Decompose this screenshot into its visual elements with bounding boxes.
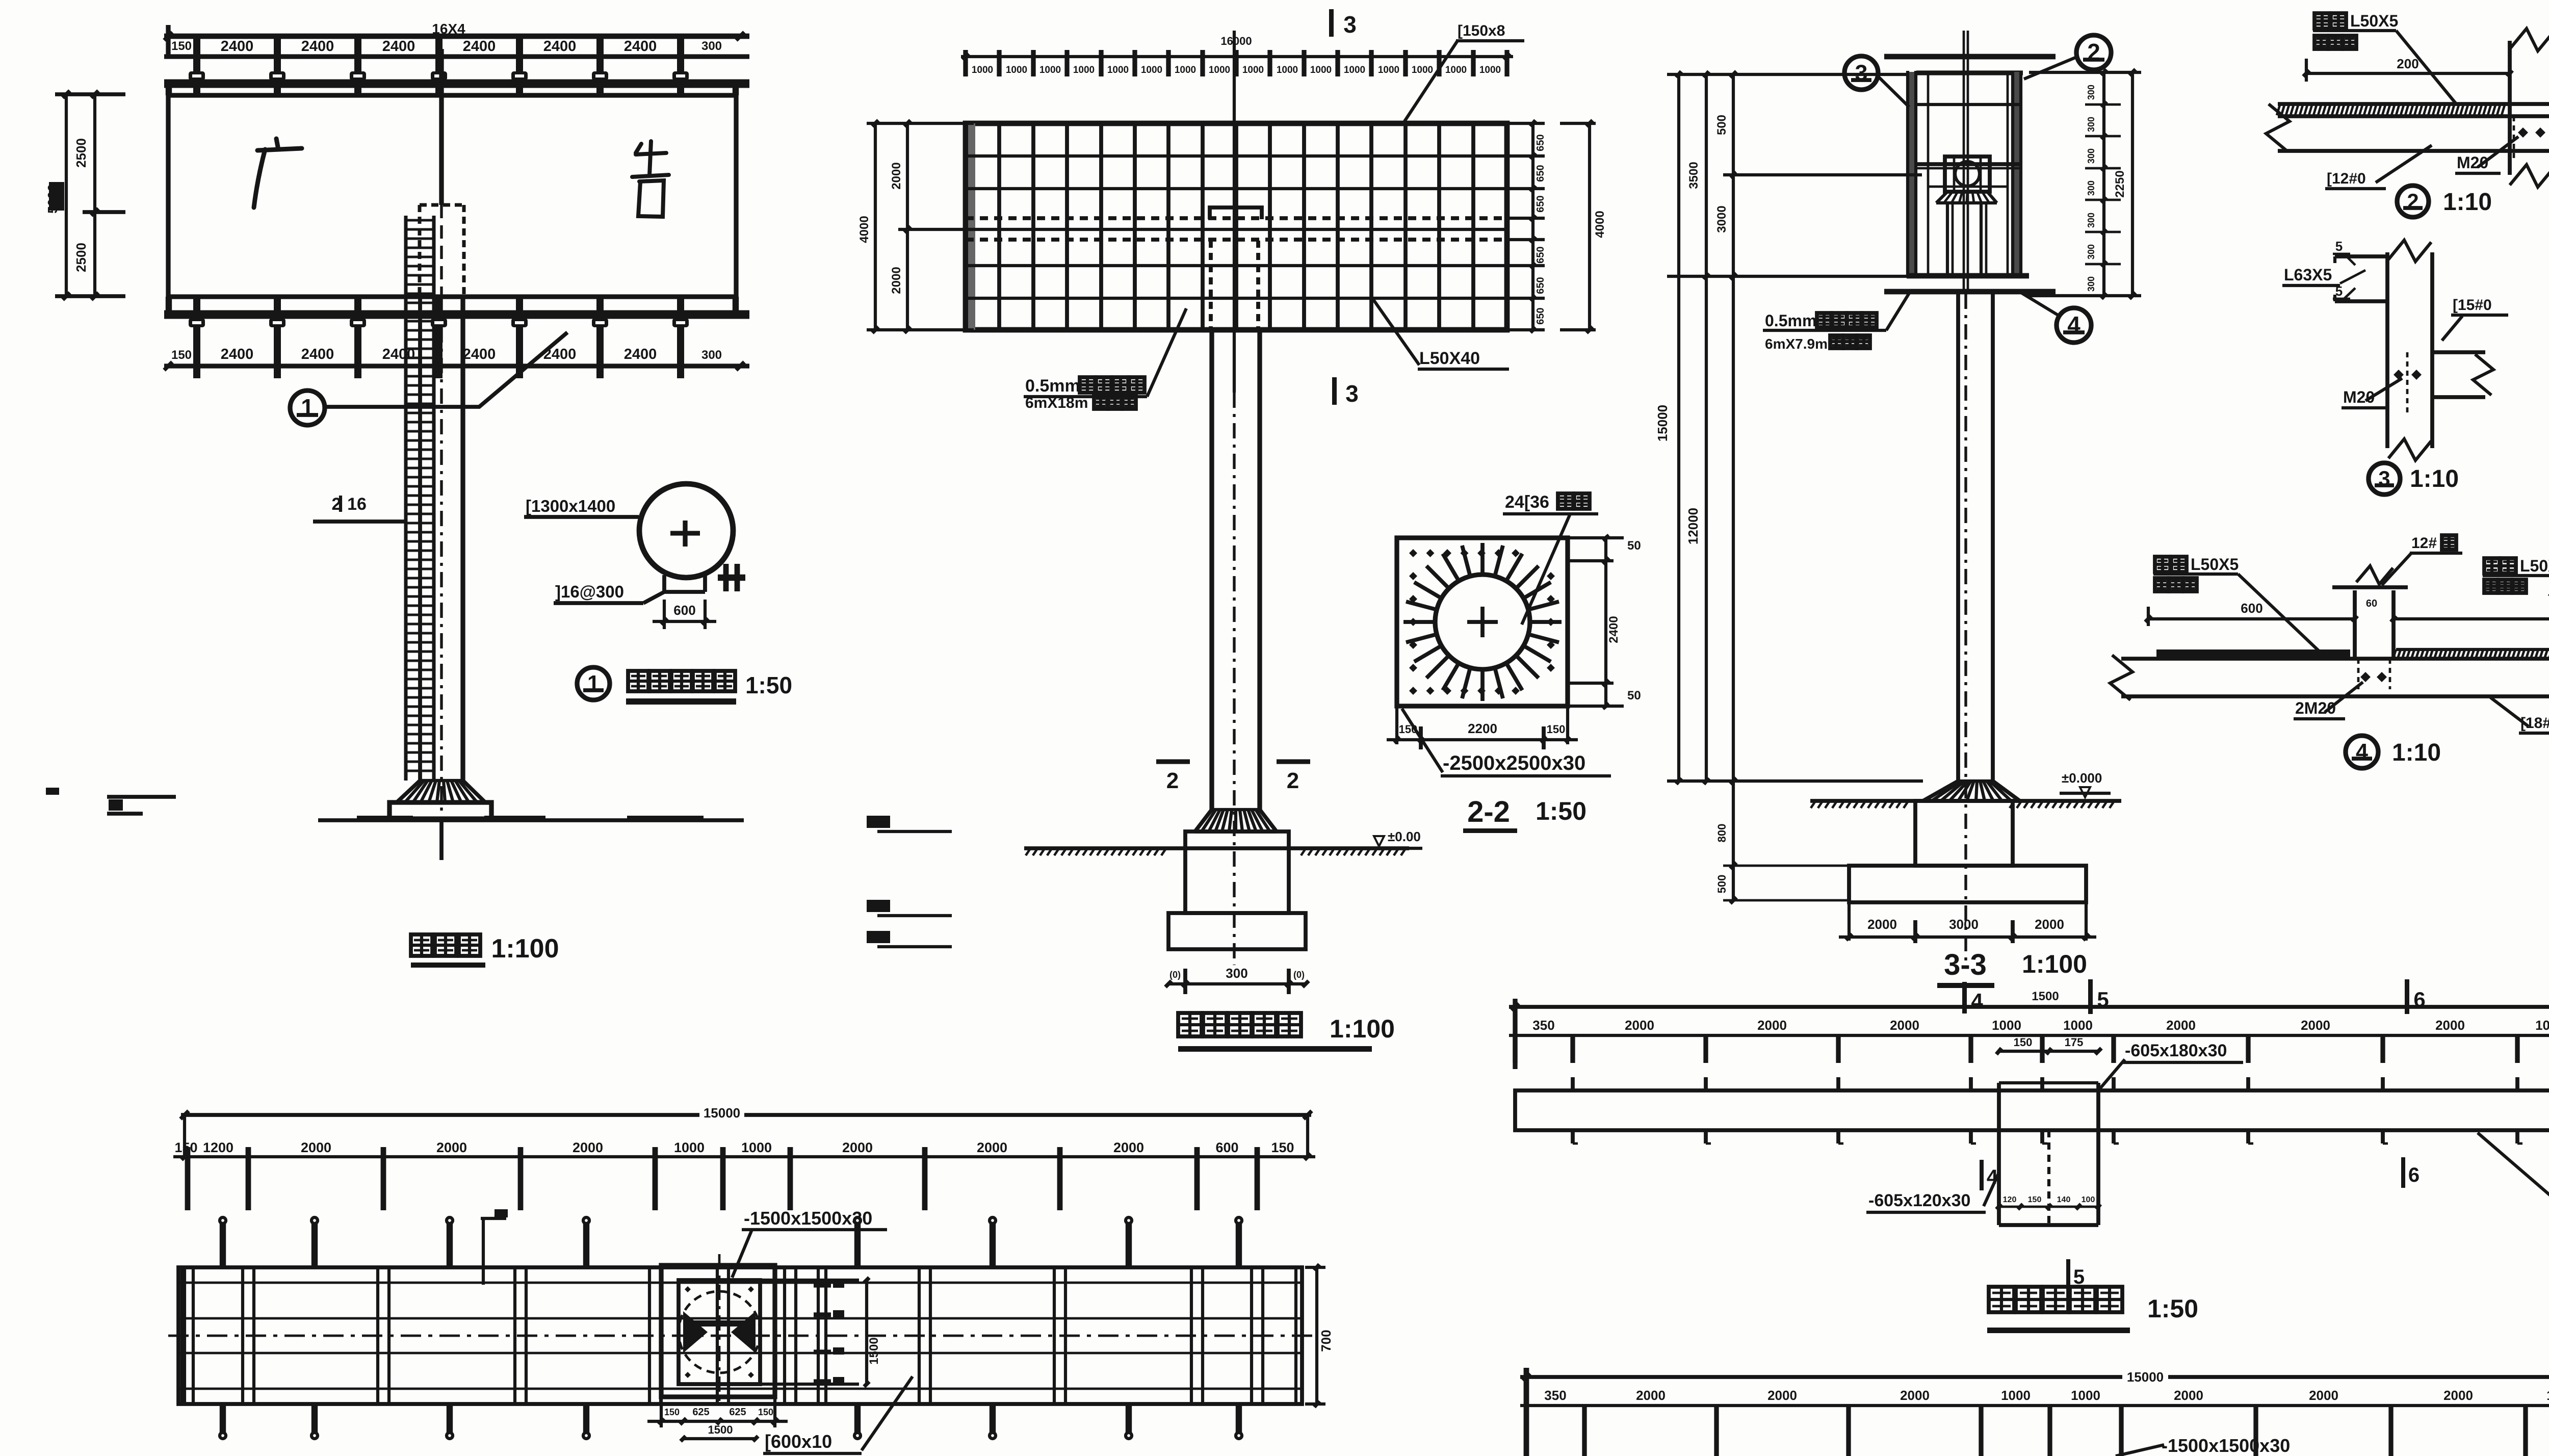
- svg-text:650: 650: [1535, 277, 1546, 294]
- svg-text:1000: 1000: [741, 1140, 772, 1155]
- svg-text:2000: 2000: [890, 267, 903, 294]
- svg-text:100: 100: [2082, 1195, 2095, 1204]
- svg-text:3: 3: [1345, 380, 1359, 407]
- svg-text:1:50: 1:50: [745, 672, 792, 698]
- svg-text:L50X5: L50X5: [2520, 557, 2549, 575]
- svg-text:2000: 2000: [1767, 1388, 1797, 1403]
- svg-text:2400: 2400: [382, 38, 415, 55]
- svg-text:1:10: 1:10: [2392, 739, 2441, 766]
- svg-text:650: 650: [1535, 195, 1546, 212]
- svg-text:2: 2: [1166, 768, 1179, 793]
- svg-text:300: 300: [2086, 117, 2096, 132]
- svg-text:300: 300: [1226, 966, 1247, 981]
- svg-text:1:50: 1:50: [2147, 1294, 2198, 1323]
- svg-text:500: 500: [1715, 115, 1729, 135]
- svg-text:1000: 1000: [1277, 65, 1298, 75]
- svg-text:2400: 2400: [221, 38, 254, 55]
- svg-text:±0.00: ±0.00: [1388, 829, 1421, 844]
- svg-text:5: 5: [2335, 239, 2343, 254]
- svg-text:1000: 1000: [674, 1140, 705, 1155]
- svg-text:2000: 2000: [1900, 1388, 1930, 1403]
- svg-text:600: 600: [2241, 601, 2262, 616]
- svg-text:625: 625: [692, 1407, 709, 1418]
- svg-text:1000: 1000: [972, 65, 993, 75]
- svg-text:1000: 1000: [2001, 1388, 2031, 1403]
- svg-text:4000: 4000: [857, 216, 871, 243]
- svg-text:6: 6: [2408, 1164, 2420, 1186]
- svg-text:1000: 1000: [1344, 65, 1365, 75]
- svg-text:2000: 2000: [1757, 1018, 1787, 1033]
- svg-text:150: 150: [2028, 1195, 2042, 1204]
- svg-text:L50X5: L50X5: [2191, 555, 2239, 574]
- svg-text:600: 600: [1215, 1140, 1238, 1155]
- svg-text:1000: 1000: [1209, 65, 1230, 75]
- svg-text:60: 60: [2366, 598, 2377, 609]
- svg-text:150: 150: [1271, 1140, 1294, 1155]
- svg-text:2200: 2200: [1468, 721, 1497, 736]
- svg-text:50: 50: [1627, 539, 1641, 553]
- svg-text:2000: 2000: [842, 1140, 873, 1155]
- svg-text:2400: 2400: [1607, 616, 1621, 643]
- svg-text:1500: 1500: [867, 1337, 881, 1364]
- svg-text:[600x10: [600x10: [765, 1431, 832, 1452]
- svg-text:2000: 2000: [1636, 1388, 1666, 1403]
- svg-text:3000: 3000: [1715, 205, 1729, 232]
- svg-text:2000: 2000: [2166, 1018, 2196, 1033]
- svg-text:4000: 4000: [1593, 211, 1607, 238]
- svg-text:16X4: 16X4: [432, 21, 465, 37]
- svg-text:600: 600: [673, 603, 695, 618]
- svg-text:4: 4: [1987, 1166, 1998, 1188]
- svg-text:300: 300: [2086, 276, 2096, 292]
- svg-text:150: 150: [664, 1407, 680, 1417]
- svg-text:350: 350: [1532, 1018, 1554, 1033]
- svg-text:4: 4: [1971, 989, 1983, 1013]
- svg-text:2400: 2400: [463, 38, 496, 55]
- svg-text:3500: 3500: [1687, 162, 1701, 189]
- svg-text:1000: 1000: [1107, 65, 1129, 75]
- svg-text:2400: 2400: [543, 38, 577, 55]
- svg-text:800: 800: [1715, 824, 1728, 843]
- svg-text:1000: 1000: [1141, 65, 1162, 75]
- svg-text:1000: 1000: [1039, 65, 1061, 75]
- svg-text:2000: 2000: [2174, 1388, 2203, 1403]
- svg-text:1000: 1000: [2535, 1018, 2549, 1033]
- svg-text:650: 650: [1535, 307, 1546, 324]
- svg-text:[12#0: [12#0: [2327, 170, 2366, 187]
- svg-text:2000: 2000: [977, 1140, 1007, 1155]
- svg-text:2500: 2500: [73, 138, 89, 168]
- svg-text:24[36: 24[36: [1505, 492, 1549, 512]
- svg-text:150: 150: [174, 1140, 197, 1155]
- svg-text:2000: 2000: [1113, 1140, 1144, 1155]
- svg-text:2000: 2000: [436, 1140, 467, 1155]
- svg-text:L50X40: L50X40: [1419, 349, 1480, 368]
- svg-text:1000: 1000: [1378, 65, 1399, 75]
- svg-text:300: 300: [2086, 213, 2096, 228]
- svg-text:700: 700: [1318, 1330, 1334, 1351]
- svg-text:1000: 1000: [1006, 65, 1027, 75]
- svg-text:±0.000: ±0.000: [2062, 770, 2102, 786]
- svg-text:6mX7.9m: 6mX7.9m: [1765, 336, 1828, 352]
- svg-text:1000: 1000: [1073, 65, 1095, 75]
- svg-text:2000: 2000: [890, 162, 903, 189]
- svg-text:300: 300: [2086, 85, 2096, 100]
- svg-text:2000: 2000: [2309, 1388, 2338, 1403]
- svg-text:300: 300: [701, 348, 722, 362]
- svg-text:2000: 2000: [1867, 917, 1897, 932]
- svg-text:120: 120: [2003, 1195, 2017, 1204]
- svg-text:1:50: 1:50: [1536, 797, 1586, 825]
- svg-text:300: 300: [2086, 148, 2096, 164]
- svg-text:(0): (0): [1293, 970, 1305, 980]
- svg-text:2400: 2400: [463, 346, 496, 362]
- svg-text:1:10: 1:10: [2410, 465, 2459, 492]
- svg-text:150: 150: [171, 348, 192, 362]
- svg-text:2000: 2000: [1890, 1018, 1919, 1033]
- svg-text:-605x120x30: -605x120x30: [1868, 1191, 1970, 1210]
- svg-text:15000: 15000: [2127, 1369, 2164, 1385]
- svg-text:650: 650: [1535, 165, 1546, 181]
- svg-text:12000: 12000: [1685, 508, 1701, 544]
- svg-text:1000: 1000: [1992, 1018, 2021, 1033]
- svg-text:[15#0: [15#0: [2453, 297, 2492, 314]
- svg-text:500: 500: [1715, 875, 1728, 894]
- svg-text:-2500x2500x30: -2500x2500x30: [1443, 752, 1585, 774]
- svg-text:12#: 12#: [2411, 535, 2437, 552]
- svg-text:1000: 1000: [1479, 65, 1501, 75]
- svg-text:140: 140: [2057, 1195, 2071, 1204]
- svg-text:15000: 15000: [704, 1105, 740, 1121]
- svg-text:2400: 2400: [624, 38, 657, 55]
- svg-text:2000: 2000: [2035, 917, 2064, 932]
- svg-text:0.5mm: 0.5mm: [1765, 311, 1816, 330]
- svg-text:-605x180x30: -605x180x30: [2125, 1041, 2227, 1060]
- svg-text:1:10: 1:10: [2443, 189, 2492, 216]
- svg-text:2000: 2000: [301, 1140, 331, 1155]
- svg-text:2400: 2400: [301, 346, 334, 362]
- svg-text:1:100: 1:100: [2022, 950, 2087, 978]
- svg-text:1:100: 1:100: [1330, 1015, 1395, 1043]
- svg-text:-1500x1500x30: -1500x1500x30: [2162, 1435, 2290, 1456]
- svg-text:650: 650: [1535, 134, 1546, 151]
- svg-text:1:100: 1:100: [491, 934, 559, 964]
- svg-text:1000: 1000: [1412, 65, 1433, 75]
- svg-text:2000: 2000: [2301, 1018, 2330, 1033]
- svg-text:2-2: 2-2: [1467, 795, 1510, 828]
- svg-text:]16@300: ]16@300: [555, 582, 624, 601]
- svg-text:1000: 1000: [1445, 65, 1467, 75]
- svg-text:[150x8: [150x8: [1458, 22, 1505, 39]
- svg-text:1000: 1000: [1175, 65, 1196, 75]
- svg-text:-1500x1500x30: -1500x1500x30: [744, 1208, 872, 1229]
- svg-text:2250: 2250: [2113, 170, 2127, 197]
- svg-text:3000: 3000: [1949, 917, 1979, 932]
- svg-text:150: 150: [1547, 723, 1566, 736]
- svg-text:300: 300: [2086, 244, 2096, 259]
- svg-text:1000: 1000: [2071, 1388, 2100, 1403]
- svg-text:150: 150: [171, 39, 192, 53]
- svg-text:3: 3: [1343, 11, 1357, 38]
- svg-text:350: 350: [1544, 1388, 1566, 1403]
- svg-text:2000: 2000: [2443, 1388, 2473, 1403]
- svg-text:1000: 1000: [1310, 65, 1332, 75]
- svg-text:1000: 1000: [2546, 1388, 2549, 1403]
- svg-text:1500: 1500: [2032, 990, 2059, 1003]
- svg-text:2400: 2400: [301, 38, 334, 55]
- svg-text:3-3: 3-3: [1944, 948, 1987, 981]
- svg-text:2500: 2500: [73, 243, 89, 272]
- svg-text:0.5mm: 0.5mm: [1025, 376, 1080, 396]
- svg-text:2000: 2000: [1625, 1018, 1654, 1033]
- svg-text:150: 150: [2014, 1036, 2033, 1049]
- svg-text:2400: 2400: [221, 346, 254, 362]
- svg-text:625: 625: [729, 1407, 746, 1418]
- svg-text:1500: 1500: [708, 1423, 733, 1436]
- svg-text:16: 16: [347, 495, 367, 514]
- svg-text:(0): (0): [1169, 970, 1181, 980]
- svg-text:2400: 2400: [382, 346, 415, 362]
- svg-text:300: 300: [2086, 180, 2096, 196]
- svg-text:[1300x1400: [1300x1400: [526, 497, 615, 515]
- svg-text:1000: 1000: [1242, 65, 1264, 75]
- svg-text:1000: 1000: [2063, 1018, 2093, 1033]
- svg-text:L63X5: L63X5: [2284, 266, 2332, 284]
- svg-text:200: 200: [2397, 56, 2418, 71]
- svg-text:16000: 16000: [1220, 35, 1252, 47]
- svg-text:2: 2: [1287, 768, 1299, 793]
- svg-text:2000: 2000: [573, 1140, 603, 1155]
- svg-text:300: 300: [701, 39, 722, 53]
- svg-text:650: 650: [1535, 246, 1546, 263]
- svg-text:1200: 1200: [203, 1140, 233, 1155]
- svg-text:150: 150: [758, 1407, 773, 1417]
- svg-text:15000: 15000: [1655, 405, 1670, 441]
- svg-text:2000: 2000: [2435, 1018, 2465, 1033]
- svg-text:2400: 2400: [624, 346, 657, 362]
- svg-text:L50X5: L50X5: [2350, 12, 2398, 30]
- svg-text:175: 175: [2065, 1036, 2084, 1049]
- svg-text:50: 50: [1627, 689, 1641, 703]
